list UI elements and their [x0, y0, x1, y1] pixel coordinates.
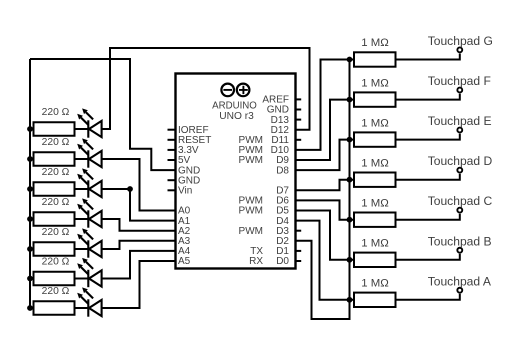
node rail junction touchpad G [347, 57, 353, 63]
pin stub 5V [168, 159, 176, 161]
LED D4 [77, 198, 101, 227]
svg-text:220 Ω: 220 Ω [42, 167, 70, 178]
svg-text:1 MΩ: 1 MΩ [361, 238, 389, 250]
svg-text:220 Ω: 220 Ω [42, 286, 70, 297]
pin stub D13 [296, 119, 302, 121]
svg-text:Touchpad A: Touchpad A [428, 274, 492, 288]
svg-text:1 MΩ: 1 MΩ [361, 77, 389, 89]
svg-text:PWM: PWM [239, 155, 263, 166]
wire row 4 resistor to LED [30, 218, 88, 220]
wire touchpad G row [350, 54, 460, 60]
resistor R4 220 ohm [34, 212, 75, 226]
wire row 7 resistor to LED [30, 307, 88, 309]
node rail junction touchpad A [347, 297, 353, 303]
resistor R12 1 Mohm [354, 213, 396, 227]
svg-text:1 MΩ: 1 MΩ [361, 278, 389, 290]
LED D1 [77, 108, 101, 137]
terminal circle touchpad A [457, 288, 462, 293]
resistor R3 220 ohm [34, 182, 75, 196]
pin stub D0 [296, 260, 302, 262]
resistor R7 220 ohm [34, 301, 75, 315]
node ground rail junction row 2 [27, 156, 33, 162]
wire touchpad E row [350, 134, 460, 140]
svg-text:220 Ω: 220 Ω [42, 227, 70, 238]
pin stub AREF [296, 98, 302, 100]
svg-text:PWM: PWM [239, 206, 263, 217]
svg-text:Touchpad G: Touchpad G [428, 34, 493, 48]
node ground rail junction row 6 [27, 276, 33, 282]
terminal circle touchpad D [457, 168, 462, 173]
wire LED1 anode to pin D12 [102, 48, 310, 130]
wire pin D10 to touchpad G node [296, 60, 350, 150]
pin stub 3.3V [168, 149, 176, 151]
resistor R14 1 Mohm [354, 293, 396, 307]
terminal circle touchpad E [457, 128, 462, 133]
wire ground rail (LED cathode bus) [29, 59, 31, 308]
wire pin D8 to touchpad E node [296, 140, 350, 171]
node rail junction touchpad F [347, 97, 353, 103]
resistor R5 220 ohm [34, 242, 75, 256]
svg-text:Touchpad B: Touchpad B [428, 234, 492, 248]
pin stub IOREF [168, 129, 176, 131]
node rail junction touchpad E [347, 137, 353, 143]
wire pin D4 to touchpad A node [296, 221, 350, 300]
resistor R9 1 Mohm [354, 92, 396, 106]
svg-text:D8: D8 [276, 165, 289, 176]
svg-text:Vin: Vin [178, 186, 192, 197]
wire pin D9 to touchpad F node [296, 100, 350, 160]
resistor R13 1 Mohm [354, 253, 396, 267]
svg-text:220 Ω: 220 Ω [42, 107, 70, 118]
terminal circle touchpad G [457, 47, 462, 52]
LED D2 [77, 138, 101, 167]
pin stub GND2 [168, 179, 176, 181]
svg-text:Touchpad D: Touchpad D [428, 154, 493, 168]
pin stub D1 [296, 250, 302, 252]
node ground rail junction row 5 [27, 246, 33, 252]
svg-text:A5: A5 [178, 256, 191, 267]
Arduino logo [221, 84, 249, 97]
svg-text:220 Ω: 220 Ω [42, 197, 70, 208]
wire LED7 anode to pin A5 [102, 261, 176, 308]
wire row 6 resistor to LED [30, 278, 88, 280]
node ground rail junction row 3 [27, 186, 33, 192]
wire LED5 anode to pin A3 [102, 241, 176, 249]
terminal circle touchpad B [457, 248, 462, 253]
wire pin D6 to touchpad C node [296, 200, 350, 219]
pin stub D3 [296, 230, 302, 232]
LED D3 [77, 168, 101, 197]
wire pin D2 send to rail bottom [296, 241, 350, 319]
svg-text:220 Ω: 220 Ω [42, 137, 70, 148]
wire touchpad A row [350, 294, 460, 300]
wire row 1 resistor to LED [30, 128, 88, 130]
svg-text:RX: RX [249, 256, 263, 267]
resistor R1 220 ohm [34, 122, 75, 136]
svg-text:Touchpad E: Touchpad E [428, 114, 492, 128]
svg-text:1 MΩ: 1 MΩ [361, 157, 389, 169]
wire touchpad B row [350, 254, 460, 260]
pin stub D11 [296, 139, 302, 141]
svg-text:1 MΩ: 1 MΩ [361, 197, 389, 209]
terminal circle touchpad C [457, 208, 462, 213]
node rail junction touchpad D [347, 177, 353, 183]
LED D5 [77, 228, 101, 257]
wire row 5 resistor to LED [30, 248, 88, 250]
terminal circle touchpad F [457, 88, 462, 93]
node rail junction touchpad B [347, 257, 353, 263]
op-amp U1 Arduino UNO r3 body [176, 74, 296, 269]
svg-text:220 Ω: 220 Ω [42, 257, 70, 268]
svg-text:Touchpad C: Touchpad C [428, 194, 493, 208]
resistor R11 1 Mohm [354, 173, 396, 187]
svg-text:1 MΩ: 1 MΩ [361, 117, 389, 129]
wire row 2 resistor to LED [30, 158, 88, 160]
resistor R2 220 ohm [34, 152, 75, 166]
wire LED3 anode to pin A1 [102, 189, 176, 221]
wire touchpad F row [350, 94, 460, 100]
resistor R8 1 Mohm [354, 52, 396, 66]
wire touchpad C row [350, 214, 460, 220]
wire touchpad D row [350, 174, 460, 180]
wire LED6 anode to pin A4 [102, 251, 176, 279]
svg-text:ARDUINO: ARDUINO [212, 100, 257, 111]
svg-text:D0: D0 [276, 256, 289, 267]
LED D6 [77, 258, 101, 287]
wire pin D7 to touchpad D node [296, 180, 350, 191]
svg-text:UNO r3: UNO r3 [219, 111, 254, 122]
node ground rail junction row 1 [27, 126, 33, 132]
svg-text:Touchpad F: Touchpad F [428, 74, 491, 88]
wire pin D5 to touchpad B node [296, 211, 350, 260]
node ground rail junction row 7 [27, 305, 33, 311]
wire row 3 resistor to LED [30, 188, 88, 190]
node ground rail junction row 4 [27, 216, 33, 222]
pin stub RESET [168, 139, 176, 141]
LED D7 [77, 287, 101, 316]
pin stub Vin [168, 189, 176, 191]
svg-text:PWM: PWM [239, 226, 263, 237]
wire send rail [349, 60, 351, 300]
node rail junction touchpad C [347, 217, 353, 223]
wire LED2 anode to pin A0 [102, 159, 176, 211]
resistor R10 1 Mohm [354, 132, 396, 146]
resistor R6 220 ohm [34, 272, 75, 286]
wire LED4 anode to pin A2 [102, 219, 176, 231]
pin stub GND [296, 109, 302, 111]
svg-text:1 MΩ: 1 MΩ [361, 37, 389, 49]
wire ground bus to GND pin [30, 59, 176, 170]
node LED3 wire bend junction [127, 186, 133, 192]
